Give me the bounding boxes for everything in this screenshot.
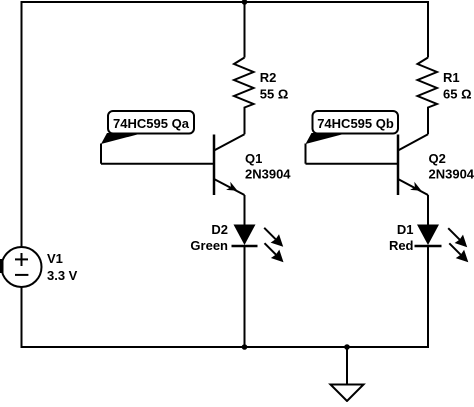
svg-text:D1: D1 — [397, 222, 414, 237]
svg-text:R2: R2 — [260, 70, 277, 85]
svg-text:D2: D2 — [211, 222, 228, 237]
svg-text:R1: R1 — [443, 70, 460, 85]
svg-text:Green: Green — [190, 238, 228, 253]
svg-text:2N3904: 2N3904 — [245, 167, 291, 182]
svg-text:Q1: Q1 — [245, 151, 262, 166]
svg-text:74HC595 Qa: 74HC595 Qa — [113, 116, 190, 131]
svg-text:V1: V1 — [47, 251, 63, 266]
svg-text:55 Ω: 55 Ω — [260, 87, 289, 102]
svg-text:Red: Red — [389, 238, 414, 253]
svg-text:Q2: Q2 — [429, 151, 446, 166]
svg-text:2N3904: 2N3904 — [429, 167, 474, 182]
svg-text:3.3 V: 3.3 V — [47, 268, 78, 283]
svg-text:74HC595 Qb: 74HC595 Qb — [317, 116, 394, 131]
svg-text:65 Ω: 65 Ω — [443, 87, 472, 102]
